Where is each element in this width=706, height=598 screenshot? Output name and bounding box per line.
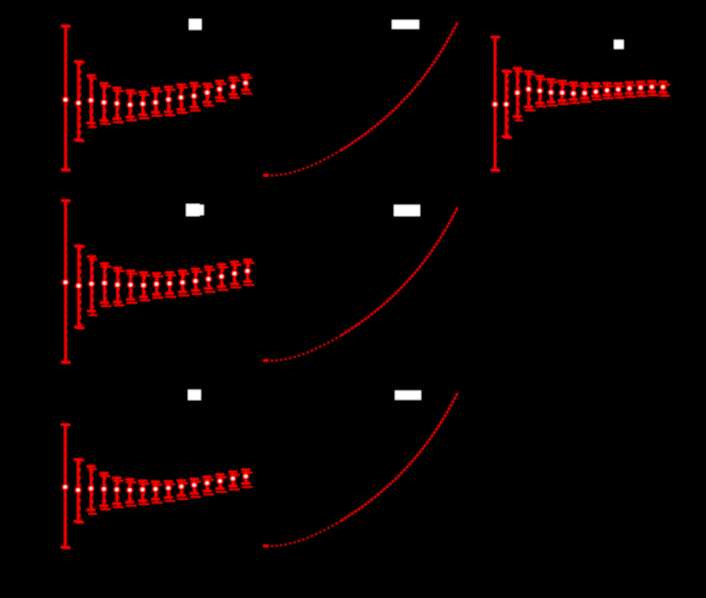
panel F point 7 marker — [139, 486, 146, 493]
panel A point 9 solid errorbar — [164, 87, 173, 112]
panel A point 1 solid errorbar — [61, 26, 70, 170]
panel A point 10 marker — [178, 94, 185, 101]
panel G point 1 marker — [492, 101, 499, 108]
panel F point 14 solid errorbar — [229, 472, 238, 486]
panel F point 12 dashed errorbar — [204, 480, 214, 495]
panel G point 6 dashed errorbar — [548, 82, 558, 105]
panel A point 3 marker — [88, 97, 95, 104]
panel F point 3 solid errorbar — [87, 466, 96, 510]
panel F point 6 solid errorbar — [125, 479, 134, 502]
panel F point 10 solid errorbar — [177, 481, 186, 496]
panel D point 10 solid errorbar — [178, 271, 187, 292]
panel D point 14 solid errorbar — [230, 262, 239, 284]
panel F point 9 solid errorbar — [164, 482, 173, 498]
panel A point 9 dashed errorbar — [165, 90, 175, 115]
panel D label box — [186, 204, 204, 216]
panel D point 10 marker — [179, 279, 186, 286]
panel F point 1 dashed errorbar — [62, 425, 70, 548]
panel F point 13 marker — [217, 478, 224, 485]
panel G point 13 solid errorbar — [625, 83, 634, 94]
panel A point 7 solid errorbar — [139, 92, 148, 115]
panel G point 11 solid errorbar — [603, 83, 612, 95]
panel A point 15 dashed errorbar — [242, 78, 252, 94]
panel D point 13 solid errorbar — [217, 265, 226, 287]
panel D point 6 dashed errorbar — [127, 274, 137, 303]
panel G point 13 dashed errorbar — [626, 85, 636, 96]
panel G point 6 solid errorbar — [547, 80, 556, 102]
panel D point 12 dashed errorbar — [205, 270, 215, 292]
panel G point 7 dashed errorbar — [559, 84, 569, 104]
panel A point 13 solid errorbar — [215, 81, 224, 98]
panel F point 1 solid errorbar — [61, 425, 70, 548]
panel A point 1 marker — [62, 96, 69, 103]
panel D point 1 dashed errorbar — [62, 201, 70, 363]
panel A point 10 dashed errorbar — [178, 88, 188, 113]
panel B label box — [392, 20, 419, 29]
panel F point 2 marker — [75, 487, 82, 494]
panel F label box — [188, 390, 201, 400]
panel A point 5 solid errorbar — [113, 88, 122, 119]
panel A point 2 marker — [75, 100, 82, 107]
panel G point 7 solid errorbar — [558, 81, 567, 100]
panel A point 4 marker — [101, 99, 108, 106]
panel G point 4 dashed errorbar — [525, 74, 535, 110]
panel A point 14 marker — [230, 83, 237, 90]
panel D point 9 marker — [166, 280, 173, 287]
panel F point 4 dashed errorbar — [100, 476, 110, 509]
panel F point 13 dashed errorbar — [217, 477, 227, 492]
panel D point 1 solid errorbar — [61, 201, 70, 363]
panel G point 3 marker — [514, 89, 521, 96]
panel G point 6 marker — [548, 89, 555, 96]
panel D point 11 dashed errorbar — [192, 272, 202, 294]
panel A point 7 marker — [140, 101, 147, 108]
panel G point 9 dashed errorbar — [581, 87, 591, 102]
panel D point 7 solid errorbar — [139, 273, 148, 297]
panel F point 11 dashed errorbar — [191, 482, 201, 497]
panel G point 2 dashed errorbar — [504, 72, 512, 138]
panel F point 6 marker — [126, 487, 133, 494]
panel D point 9 dashed errorbar — [166, 275, 176, 297]
panel G point 9 marker — [581, 90, 588, 97]
panel F point 2 solid errorbar — [74, 460, 83, 522]
panel A point 12 dashed errorbar — [204, 87, 214, 106]
panel A point 9 marker — [165, 96, 172, 103]
panel G point 9 solid errorbar — [580, 84, 589, 98]
panel A point 6 solid errorbar — [126, 91, 135, 117]
panel F point 12 marker — [204, 480, 211, 487]
panel A point 14 dashed errorbar — [230, 81, 240, 98]
panel D point 8 marker — [153, 281, 160, 288]
panel D point 2 marker — [75, 282, 82, 289]
panel D point 4 solid errorbar — [100, 264, 109, 303]
panel D point 13 dashed errorbar — [218, 267, 228, 290]
panel D point 8 dashed errorbar — [153, 276, 163, 298]
panel D point 3 marker — [88, 281, 95, 288]
panel G point 16 dashed errorbar — [660, 85, 670, 96]
panel G point 5 dashed errorbar — [536, 79, 546, 106]
panel A label box — [189, 19, 202, 30]
panel D point 4 dashed errorbar — [101, 267, 111, 307]
panel G point 4 solid errorbar — [524, 72, 533, 107]
panel F point 3 marker — [88, 485, 95, 492]
panel F point 15 solid errorbar — [242, 470, 251, 484]
panel A point 15 marker — [242, 80, 249, 87]
panel D point 6 marker — [127, 282, 134, 289]
panel D point 7 marker — [140, 282, 147, 289]
panel A point 5 dashed errorbar — [114, 91, 124, 122]
panel E model curve — [263, 207, 458, 362]
panel F point 15 dashed errorbar — [242, 473, 252, 487]
panel F point 10 dashed errorbar — [178, 483, 188, 499]
panel F point 7 dashed errorbar — [139, 484, 149, 504]
panel A point 12 solid errorbar — [203, 84, 212, 102]
panel A point 10 solid errorbar — [177, 85, 186, 110]
panel F point 5 marker — [114, 486, 121, 493]
panel F point 8 dashed errorbar — [152, 485, 162, 503]
panel A point 15 solid errorbar — [241, 75, 250, 90]
panel A point 11 dashed errorbar — [191, 86, 201, 110]
panel H model curve — [263, 392, 458, 547]
panel D point 2 solid errorbar — [74, 246, 83, 327]
panel G point 15 marker — [649, 84, 656, 91]
panel F point 7 solid errorbar — [138, 481, 147, 501]
panel F point 5 dashed errorbar — [113, 481, 123, 507]
panel A point 6 marker — [127, 102, 134, 109]
panel G point 16 solid errorbar — [659, 82, 668, 92]
panel A point 7 dashed errorbar — [139, 95, 149, 118]
panel F point 13 solid errorbar — [216, 475, 225, 489]
panel G point 1 dashed errorbar — [492, 38, 500, 171]
panel F point 4 solid errorbar — [100, 473, 109, 506]
panel D point 14 marker — [231, 270, 238, 277]
panel F point 3 dashed errorbar — [89, 469, 97, 514]
panel F point 15 marker — [243, 473, 250, 480]
panel H label box — [395, 391, 421, 400]
panel D point 12 solid errorbar — [204, 267, 213, 289]
panel G point 12 solid errorbar — [614, 84, 623, 95]
panel F point 8 marker — [152, 486, 159, 493]
panel A point 13 marker — [216, 86, 223, 93]
panel F point 2 dashed errorbar — [76, 460, 84, 522]
panel A point 14 solid errorbar — [229, 78, 238, 95]
panel D point 9 solid errorbar — [165, 273, 174, 294]
panel F point 11 marker — [191, 482, 198, 489]
panel G point 7 marker — [559, 89, 566, 96]
panel D point 4 marker — [101, 280, 108, 287]
panel D point 2 dashed errorbar — [77, 247, 85, 329]
panel D point 11 marker — [192, 278, 199, 285]
panel D point 1 marker — [62, 279, 69, 286]
panel G point 1 solid errorbar — [491, 37, 500, 170]
panel F point 10 marker — [178, 483, 185, 490]
panel G label box — [614, 40, 624, 49]
panel D point 10 dashed errorbar — [179, 274, 189, 296]
panel G point 8 solid errorbar — [569, 83, 578, 100]
panel F point 9 dashed errorbar — [165, 484, 175, 501]
panel G point 10 marker — [593, 89, 600, 96]
panel D point 13 marker — [218, 273, 225, 280]
panel F point 9 marker — [165, 485, 172, 492]
panel D point 15 dashed errorbar — [244, 263, 254, 285]
panel A point 1 dashed errorbar — [62, 27, 70, 171]
panel A point 12 marker — [204, 89, 211, 96]
panel G point 4 marker — [525, 86, 532, 93]
panel G point 3 solid errorbar — [513, 68, 522, 116]
panel A point 8 dashed errorbar — [152, 91, 162, 115]
panel G point 12 dashed errorbar — [615, 86, 625, 97]
panel A point 3 solid errorbar — [87, 76, 96, 123]
panel F point 11 solid errorbar — [190, 479, 199, 494]
panel F point 8 solid errorbar — [151, 482, 160, 499]
panel D point 11 solid errorbar — [191, 269, 200, 291]
panel D point 15 marker — [244, 268, 251, 275]
panel E label box — [394, 205, 420, 216]
panel A point 3 dashed errorbar — [89, 78, 97, 127]
panel D point 5 marker — [114, 281, 121, 288]
panel D point 12 marker — [205, 276, 212, 283]
panel A point 11 solid errorbar — [190, 83, 199, 107]
panel B model curve — [263, 22, 458, 177]
panel D point 8 solid errorbar — [152, 273, 161, 294]
panel F point 5 solid errorbar — [113, 478, 122, 504]
panel D point 6 solid errorbar — [126, 271, 135, 300]
panel D point 5 dashed errorbar — [114, 271, 124, 305]
panel F point 12 solid errorbar — [203, 477, 212, 491]
panel G point 10 dashed errorbar — [592, 86, 602, 99]
panel G point 11 marker — [604, 87, 611, 94]
panel G point 2 marker — [503, 101, 510, 108]
panel A point 8 solid errorbar — [151, 89, 160, 113]
panel D point 14 dashed errorbar — [231, 265, 241, 288]
panel F point 14 marker — [230, 475, 237, 482]
panel A point 4 dashed errorbar — [101, 86, 111, 124]
panel A point 6 dashed errorbar — [127, 93, 137, 120]
panel G point 10 solid errorbar — [592, 84, 601, 96]
panel G point 15 solid errorbar — [648, 81, 657, 91]
panel G point 5 solid errorbar — [536, 76, 545, 103]
panel A point 4 solid errorbar — [100, 83, 109, 120]
panel D point 7 dashed errorbar — [140, 275, 150, 300]
panel G point 14 marker — [637, 84, 644, 91]
panel F point 4 marker — [101, 486, 108, 493]
panel G point 2 solid errorbar — [502, 71, 511, 137]
panel A point 11 marker — [191, 93, 198, 100]
panel A point 5 marker — [114, 100, 121, 107]
panel D point 5 solid errorbar — [113, 268, 122, 302]
panel G point 5 marker — [537, 88, 544, 95]
panel G point 12 marker — [615, 86, 622, 93]
panel F point 1 marker — [62, 484, 69, 491]
panel F point 14 dashed errorbar — [229, 475, 239, 490]
panel G point 16 marker — [660, 84, 667, 91]
panel A point 2 dashed errorbar — [76, 62, 84, 141]
panel F point 6 dashed errorbar — [126, 482, 136, 505]
panel G point 13 marker — [626, 85, 633, 92]
panel A point 13 dashed errorbar — [216, 84, 226, 101]
panel D point 3 dashed errorbar — [89, 260, 97, 316]
panel G point 3 dashed errorbar — [515, 71, 523, 120]
panel G point 11 dashed errorbar — [604, 86, 614, 98]
panel G point 15 dashed errorbar — [648, 84, 658, 95]
panel G point 8 dashed errorbar — [570, 86, 580, 103]
panel D point 3 solid errorbar — [87, 257, 96, 311]
panel A point 8 marker — [152, 99, 159, 106]
panel D point 15 solid errorbar — [243, 260, 252, 282]
panel G point 14 dashed errorbar — [637, 85, 647, 96]
panel G point 8 marker — [570, 90, 577, 97]
panel A point 2 solid errorbar — [74, 62, 83, 140]
panel G point 14 solid errorbar — [636, 82, 645, 93]
